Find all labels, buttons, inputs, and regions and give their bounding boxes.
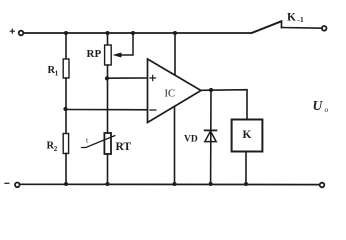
relay coil K xyxy=(232,120,263,152)
diode VD xyxy=(184,130,216,144)
node junction K/bottom-rail xyxy=(244,182,248,186)
terminal + (positive supply input) xyxy=(10,29,23,35)
wire R1 to node B xyxy=(65,78,67,134)
wiper of RP (arrow to top rail) xyxy=(113,34,134,58)
svg-text:U: U xyxy=(313,98,324,113)
svg-text:1: 1 xyxy=(55,70,59,78)
thermistor RT xyxy=(82,133,132,154)
node junction RP-top/top-rail xyxy=(106,31,110,35)
node junction RT/bottom-rail xyxy=(106,182,110,186)
node junction IC-supply/bottom-rail xyxy=(173,182,177,186)
node junction R2/bottom-rail xyxy=(64,182,68,186)
wire IC positive supply pin xyxy=(174,33,176,76)
wire R2 to bottom rail xyxy=(65,154,67,185)
svg-text:2: 2 xyxy=(54,145,58,153)
node output (VD / K junction) xyxy=(209,88,213,92)
wire RT to bottom rail xyxy=(107,154,109,184)
svg-text:-1: -1 xyxy=(298,15,304,24)
node junction VD/bottom-rail xyxy=(209,182,213,186)
wire RP to node A xyxy=(107,65,109,133)
terminal output bottom-right xyxy=(320,183,325,188)
wire node B to IC inverting input xyxy=(66,109,149,111)
wire top-rail to R1 xyxy=(65,33,67,59)
terminal output top-right xyxy=(322,26,327,31)
svg-text:o: o xyxy=(325,105,329,114)
wire IC output to relay K xyxy=(201,90,247,120)
svg-text:K: K xyxy=(287,12,296,24)
wire output node to VD and bottom rail xyxy=(210,90,212,184)
svg-text:IC: IC xyxy=(165,89,176,100)
wire top-rail to RP xyxy=(107,33,109,45)
terminal - (negative supply input) xyxy=(5,183,20,188)
svg-text:RP: RP xyxy=(87,48,102,60)
resistor R2 xyxy=(47,134,69,154)
node junction IC-supply/top-rail xyxy=(173,31,177,35)
potentiometer RP xyxy=(87,45,112,65)
node A (RP/RT junction, non-inverting input) xyxy=(105,76,109,80)
resistor R1 xyxy=(48,59,70,78)
node junction RP-wiper/top-rail xyxy=(131,31,135,35)
svg-text:RT: RT xyxy=(116,141,132,153)
svg-text:VD: VD xyxy=(184,135,198,145)
wire top rail xyxy=(24,32,252,34)
node junction R1/top-rail xyxy=(64,31,68,35)
wire IC negative supply pin xyxy=(174,106,176,184)
wire bottom rail xyxy=(20,183,320,185)
op-amp IC xyxy=(148,59,202,123)
svg-text:K: K xyxy=(243,129,252,141)
switch K-1 (relay contact) xyxy=(252,12,322,33)
node B (R1/R2 divider, inverting input) xyxy=(63,107,67,111)
wire K to bottom rail xyxy=(245,152,247,185)
wire node A to IC non-inverting input xyxy=(107,77,148,79)
